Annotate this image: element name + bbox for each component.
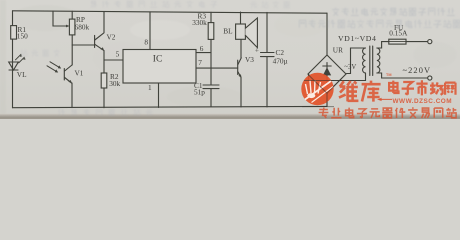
transistor V3 [238, 39, 255, 107]
transformer T primary coil [377, 48, 380, 73]
wire bridge DC+ drop [326, 13, 328, 55]
terminal node N [428, 76, 432, 80]
svg-text:470µ: 470µ [273, 56, 288, 65]
resistor R1 [11, 25, 28, 40]
phototransistor V1 [47, 62, 84, 108]
resistor R3 [192, 12, 214, 69]
transistor V2 [95, 12, 116, 60]
svg-text:V1: V1 [75, 69, 84, 78]
wire bottom ground rail [13, 106, 328, 107]
svg-text:VL: VL [17, 70, 27, 79]
paper background [0, 0, 460, 119]
svg-text:1: 1 [148, 83, 152, 92]
paper mottling [0, 0, 457, 119]
svg-text:150: 150 [17, 31, 28, 40]
wire secondary bottom to bridge AC left [309, 73, 366, 81]
svg-text:30k: 30k [109, 79, 120, 88]
watermark url arrow [379, 98, 392, 100]
svg-text:BL: BL [223, 27, 233, 36]
watermark char 电 [389, 81, 398, 93]
watermark big char 维 [339, 81, 358, 101]
svg-text:UR: UR [333, 46, 343, 55]
watermark char 市 [416, 80, 427, 95]
svg-text:7: 7 [198, 58, 202, 67]
wire IC pin7 to V3 base [196, 67, 238, 69]
watermark slogan row [319, 107, 457, 118]
wire primary bottom to terminal [377, 73, 428, 78]
svg-text:8: 8 [144, 37, 148, 46]
wire primary top to fuse [377, 42, 389, 48]
wire IC pin8 [149, 12, 151, 50]
svg-text:0.15A: 0.15A [389, 29, 408, 38]
svg-text:WWW.DZSC.COM: WWW.DZSC.COM [393, 98, 453, 105]
ghost bleed-through text [20, 1, 460, 116]
svg-text:6: 6 [200, 44, 204, 53]
wire left rail [12, 11, 14, 108]
svg-text:V3: V3 [245, 55, 254, 64]
svg-text:330k: 330k [192, 18, 207, 27]
bottom page-edge band [0, 114, 460, 119]
watermark logo circle [301, 73, 342, 107]
watermark big char 库 [362, 81, 381, 102]
svg-text:IC: IC [153, 54, 163, 64]
capacitor C1 [194, 68, 219, 107]
wire top supply rail [13, 11, 328, 13]
transformer T secondary coil [363, 48, 366, 73]
svg-text:V2: V2 [107, 33, 116, 42]
wire IC pin1 [158, 83, 160, 108]
wire secondary top to bridge AC right [347, 48, 366, 74]
watermark char 网 [445, 83, 455, 95]
terminal node L [428, 40, 432, 44]
svg-text:680k: 680k [75, 23, 90, 32]
wire V2 base tap [72, 44, 94, 46]
svg-text:5: 5 [116, 49, 120, 58]
potentiometer RP wiper arm [53, 11, 70, 27]
bridge rectifier UR VD1~VD4 [308, 34, 376, 93]
svg-text:TM: TM [386, 73, 391, 77]
fuse FU [389, 23, 408, 44]
wire IC pin6 [196, 52, 211, 54]
speaker BL [223, 12, 257, 48]
svg-text:VD1~VD4: VD1~VD4 [338, 34, 376, 43]
wire fuse to terminal [406, 41, 428, 43]
wire IC pin5 [104, 59, 123, 61]
LED VL [9, 54, 27, 79]
svg-text:+: + [255, 45, 259, 54]
capacitor C2 electrolytic [255, 12, 288, 107]
resistor R2 [101, 60, 120, 108]
svg-text:51p: 51p [194, 87, 205, 96]
watermark char 场 [430, 82, 443, 94]
potentiometer RP [69, 11, 89, 65]
svg-text:~3V: ~3V [344, 64, 356, 71]
watermark char 子 [402, 82, 414, 95]
svg-text:~220V: ~220V [403, 66, 432, 75]
transformer core [370, 46, 373, 76]
wire bridge DC- riser [326, 93, 328, 106]
IC block [123, 50, 196, 84]
wire segments over logo [302, 75, 342, 107]
